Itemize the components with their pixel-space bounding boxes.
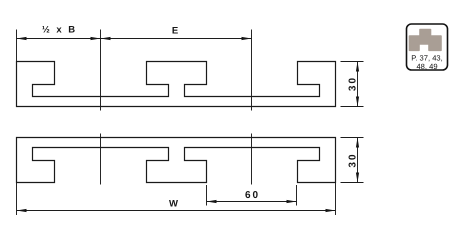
svg-text:½ x B: ½ x B — [42, 25, 77, 36]
svg-text:E: E — [172, 26, 178, 37]
badge icon (grooved plate cross-section) — [410, 30, 442, 51]
svg-text:30: 30 — [348, 76, 359, 91]
arrowhead 60 right — [287, 200, 297, 203]
bottom plate profile (T-slots opening down) — [17, 138, 336, 183]
dimension line half-B — [17, 38, 101, 40]
svg-text:60: 60 — [245, 190, 260, 201]
arrowhead 30-top down — [356, 97, 359, 107]
extension line slot2 center (x=251) through bottom bar — [251, 134, 253, 185]
extension line 60 left — [206, 185, 208, 206]
dimension line W — [17, 210, 336, 212]
arrowhead 60 left — [207, 200, 217, 203]
extension line 30-bottom upper — [341, 137, 364, 139]
extension line 30-top lower — [341, 106, 364, 108]
arrowhead half-B left — [17, 37, 27, 40]
arrowhead half-B right — [91, 37, 101, 40]
arrowhead W right — [326, 209, 336, 212]
arrowhead E left — [101, 37, 111, 40]
dimension line 30 bottom — [357, 138, 359, 183]
arrowhead 30-top up — [356, 62, 359, 72]
arrowhead 30-bottom down — [356, 173, 359, 183]
top plate profile (T-slots opening up) — [17, 62, 336, 107]
dimension line E — [101, 38, 252, 40]
extension line slot1 center (x=100) through top bar — [100, 30, 102, 111]
arrowhead 30-bottom up — [356, 138, 359, 148]
extension line left edge (x=16) above top bar — [16, 30, 18, 62]
svg-text:48, 49: 48, 49 — [416, 62, 437, 71]
extension line slot1 center (x=100) through bottom bar — [100, 134, 102, 185]
page-ref badge frame — [407, 24, 448, 70]
extension line 30-bottom lower — [341, 182, 364, 184]
extension line W right — [335, 183, 337, 216]
arrowhead E right — [242, 37, 252, 40]
extension line W left — [16, 183, 18, 216]
extension line 60 right — [296, 185, 298, 206]
svg-text:W: W — [169, 199, 178, 210]
arrowhead W left — [17, 209, 27, 212]
dimension line 30 top — [357, 62, 359, 107]
extension line 30-top upper — [341, 61, 364, 63]
extension line slot2 center (x=251) through top bar — [251, 30, 253, 111]
svg-text:30: 30 — [348, 152, 359, 167]
dimension line 60 — [207, 201, 297, 203]
